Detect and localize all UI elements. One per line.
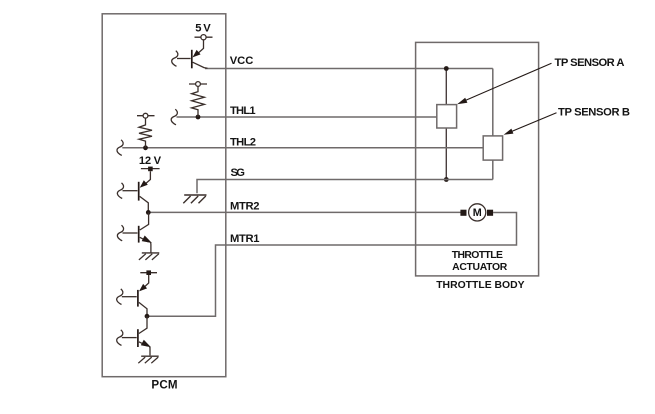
svg-text:SG: SG — [231, 167, 246, 179]
transistor Q1 (PNP, VCC driver) — [177, 40, 208, 69]
net label VCC — [230, 55, 254, 67]
wire VCC to TP sensor B top — [492, 69, 494, 136]
resistor R2 (THL2 pull-up) — [139, 118, 152, 148]
net label MTR1 — [230, 233, 260, 245]
5 V value label — [195, 22, 211, 34]
svg-text:VCC: VCC — [230, 55, 254, 67]
transistor Q2 (PNP, MTR2 high side) — [123, 171, 151, 212]
TP SENSOR A label — [555, 57, 625, 69]
wire break squiggle Q4 base — [117, 289, 123, 305]
wire break squiggle Q2 base — [117, 183, 123, 199]
wire MTR1 with motor loop — [147, 213, 517, 317]
TP sensor B box — [483, 136, 502, 160]
net label THL1 — [230, 105, 256, 117]
net label MTR2 — [230, 200, 260, 212]
wire SG — [197, 180, 493, 194]
node junction VCC / sensor A — [444, 66, 449, 71]
wire MTR2 — [148, 211, 460, 213]
power terminal 12V (square, MTR1 pair) — [140, 270, 157, 275]
THROTTLE BODY label — [436, 280, 524, 291]
arrow to TP sensor A — [457, 63, 551, 104]
svg-text:M: M — [473, 207, 482, 219]
wire sensor A bottom to SG — [445, 128, 447, 180]
TP SENSOR B label — [558, 106, 630, 118]
THROTTLE ACTUATOR label — [452, 250, 508, 273]
wire break squiggle Q3 base — [117, 225, 123, 241]
node junction THL1 / resistor — [196, 115, 201, 120]
12 V value label — [139, 155, 162, 167]
ground (Q3 emitter) — [139, 253, 159, 260]
svg-text:PCM: PCM — [151, 378, 177, 391]
power terminal 5V for resistor R2 — [137, 113, 155, 118]
TP sensor A box — [437, 105, 457, 128]
svg-text:THROTTLE: THROTTLE — [452, 250, 503, 261]
power terminal 12V (square) — [141, 167, 160, 172]
PCM box — [102, 14, 226, 377]
svg-text:TP SENSOR A: TP SENSOR A — [555, 57, 625, 69]
svg-text:THL1: THL1 — [230, 105, 256, 117]
power terminal 5V for resistor R1 — [189, 82, 207, 87]
wire THL2 — [122, 147, 483, 149]
PCM label — [151, 378, 177, 391]
wire VCC — [205, 68, 493, 70]
THROTTLE BODY box — [416, 42, 539, 276]
svg-text:THL2: THL2 — [230, 137, 256, 149]
wire break squiggle Q1 base — [172, 51, 178, 67]
wire VCC to TP sensor A top — [445, 69, 447, 105]
svg-text:MTR1: MTR1 — [230, 233, 260, 245]
motor M — [460, 204, 493, 221]
ground (Q5 emitter) — [138, 356, 158, 363]
ground SG — [183, 195, 206, 203]
svg-text:TP SENSOR B: TP SENSOR B — [558, 106, 630, 118]
svg-text:MTR2: MTR2 — [230, 200, 260, 212]
wire THL1 — [177, 116, 437, 118]
transistor Q4 (PNP, MTR1 high side) — [122, 275, 149, 316]
node junction THL2 / resistor — [143, 145, 148, 150]
svg-text:THROTTLE BODY: THROTTLE BODY — [436, 280, 524, 291]
svg-text:5 V: 5 V — [195, 22, 211, 34]
resistor R1 (THL1 pull-up) — [192, 86, 205, 117]
node junction MTR1 — [145, 314, 150, 319]
node junction MTR2 — [146, 210, 151, 215]
arrow to TP sensor B — [504, 113, 557, 135]
wire sensor B bottom to SG — [492, 160, 494, 179]
wire break squiggle THL2 — [117, 140, 123, 156]
svg-text:ACTUATOR: ACTUATOR — [452, 262, 508, 273]
transistor Q5 (NPN, MTR1 low side) — [122, 316, 150, 355]
node junction SG / sensor A — [444, 177, 449, 182]
svg-text:12 V: 12 V — [139, 155, 162, 167]
net label THL2 — [230, 137, 256, 149]
transistor Q3 (NPN, MTR2 low side) — [123, 212, 151, 253]
wire break squiggle THL1 — [171, 109, 177, 125]
net label SG — [231, 167, 246, 179]
power terminal 5V (circle) — [195, 35, 213, 40]
wire break squiggle Q5 base — [117, 330, 123, 346]
